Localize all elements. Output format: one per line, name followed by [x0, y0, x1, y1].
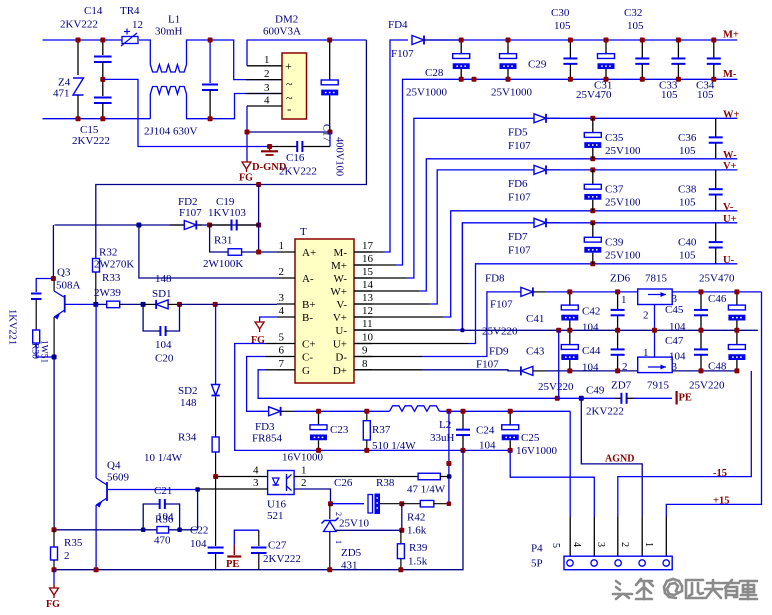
svg-text:D+: D+ — [333, 365, 347, 377]
capacitor C23 — [318, 411, 320, 425]
svg-text:C16: C16 — [286, 152, 305, 164]
wire pin6 to FD3 — [265, 356, 277, 358]
svg-text:1: 1 — [643, 347, 649, 359]
resistor R36 — [157, 527, 169, 534]
svg-text:FR854: FR854 — [252, 433, 282, 445]
svg-text:4: 4 — [264, 95, 270, 107]
wire Q4 emitter — [95, 505, 97, 570]
svg-text:521: 521 — [267, 510, 284, 522]
capacitor C32 — [641, 40, 643, 58]
svg-text:400V100: 400V100 — [334, 137, 345, 176]
svg-text:C24: C24 — [476, 425, 495, 437]
wire C16 up — [329, 132, 331, 147]
transistor Q4 — [106, 482, 108, 501]
junction — [640, 77, 645, 82]
capacitor C38 — [715, 170, 717, 189]
svg-text:2J104 630V: 2J104 630V — [144, 126, 198, 138]
junction C17 top — [327, 38, 332, 43]
wire pin5 to return row — [265, 343, 277, 345]
junction — [446, 409, 451, 414]
capacitor C27 — [234, 530, 258, 545]
pin 3 — [277, 303, 295, 305]
svg-text:R32: R32 — [99, 247, 117, 259]
svg-text:C43: C43 — [526, 346, 545, 358]
pin 4 — [247, 105, 282, 107]
svg-text:C28: C28 — [425, 67, 444, 79]
svg-text:2KV222: 2KV222 — [586, 406, 624, 418]
junction — [364, 409, 369, 414]
junction — [52, 527, 57, 532]
wire -15 out row — [672, 370, 737, 372]
diode FD2 — [170, 224, 184, 226]
svg-text:C22: C22 — [190, 525, 208, 537]
capacitor C49 — [615, 397, 621, 399]
svg-text:C26: C26 — [334, 477, 353, 489]
wire R31 row — [210, 225, 229, 252]
svg-text:2: 2 — [619, 542, 630, 547]
junction — [459, 77, 464, 82]
junction — [316, 448, 321, 453]
wire to T pin3 — [215, 303, 277, 305]
svg-text:FD5: FD5 — [508, 126, 528, 138]
junction — [699, 289, 704, 294]
capacitor C46 — [736, 292, 738, 305]
svg-text:12: 12 — [362, 305, 373, 317]
svg-text:C32: C32 — [624, 7, 642, 19]
junction — [245, 130, 250, 135]
svg-text:W+: W+ — [330, 286, 347, 298]
pin 16 — [354, 264, 372, 266]
svg-text:FG: FG — [46, 599, 60, 610]
svg-text:R33: R33 — [102, 272, 121, 284]
svg-text:4: 4 — [253, 465, 259, 477]
svg-text:1: 1 — [279, 240, 285, 252]
wire U- row — [354, 343, 469, 345]
resistor R32 — [93, 259, 100, 273]
svg-text:~: ~ — [286, 77, 293, 91]
svg-text:8: 8 — [362, 358, 368, 370]
junction Q3 collector — [51, 276, 56, 281]
transformer T — [295, 239, 354, 383]
svg-text:W-: W- — [723, 150, 737, 161]
wire 7915 gnd — [654, 330, 656, 357]
wire to C49 — [557, 397, 615, 399]
capacitor C24 — [462, 411, 464, 429]
junction — [640, 38, 645, 43]
wire R36 row — [54, 529, 198, 531]
svg-text:-: - — [287, 101, 291, 116]
svg-text:C14: C14 — [84, 5, 103, 17]
junction — [94, 567, 99, 572]
svg-text:C20: C20 — [155, 353, 174, 365]
wire +in row — [545, 291, 638, 293]
junction — [364, 448, 369, 453]
junction — [136, 223, 141, 228]
pin 4 — [277, 316, 295, 318]
svg-text:F107: F107 — [476, 359, 499, 371]
junction — [459, 38, 464, 43]
junction — [208, 116, 213, 121]
svg-text:R37: R37 — [372, 424, 391, 436]
svg-text:25V100: 25V100 — [605, 196, 641, 208]
svg-text:C44: C44 — [582, 345, 601, 357]
wire L1 upper to DM2 pin2 — [187, 40, 283, 80]
capacitor C45 — [700, 292, 702, 310]
pin 6 — [277, 356, 295, 358]
junction — [447, 474, 452, 479]
ground FG — [242, 162, 251, 169]
svg-text:471: 471 — [53, 88, 70, 100]
svg-text:104: 104 — [479, 440, 496, 452]
junction SD1 right — [177, 302, 182, 307]
svg-text:F107: F107 — [508, 244, 531, 256]
junction — [328, 501, 333, 506]
svg-text:-15: -15 — [713, 468, 727, 479]
junction — [568, 77, 573, 82]
svg-text:M-: M- — [334, 247, 348, 259]
svg-text:5: 5 — [279, 332, 285, 344]
svg-text:1.6k: 1.6k — [407, 525, 427, 537]
wire +15reg to P4 — [666, 292, 761, 517]
svg-text:25V220: 25V220 — [689, 380, 725, 392]
connector P4 5P — [564, 556, 672, 570]
svg-text:C29: C29 — [528, 59, 547, 71]
junction — [461, 448, 466, 453]
ground FG pin4 — [260, 317, 277, 322]
svg-text:105: 105 — [679, 196, 696, 208]
junction — [460, 328, 464, 332]
svg-text:5609: 5609 — [107, 472, 130, 484]
junction — [256, 250, 261, 255]
wire collector up — [52, 225, 54, 279]
svg-text:104: 104 — [669, 351, 686, 363]
wire L1 lower to DM2 pin3 — [187, 94, 283, 119]
junction — [590, 156, 595, 161]
wire U+ row — [354, 329, 455, 331]
svg-text:SD1: SD1 — [152, 288, 172, 300]
regulator ZD6 7815 — [638, 289, 673, 305]
capacitor C42 — [617, 292, 619, 310]
pin 1 — [277, 251, 295, 253]
ground FG bottom — [53, 570, 55, 584]
junction SD1 left — [141, 302, 146, 307]
svg-text:C35: C35 — [605, 132, 624, 144]
svg-text:1KV221: 1KV221 — [7, 309, 18, 345]
diode FD4 — [412, 36, 424, 45]
svg-text:F107: F107 — [508, 140, 531, 152]
svg-text:TR4: TR4 — [120, 5, 140, 17]
junction — [604, 77, 609, 82]
pin 1 — [247, 65, 282, 67]
svg-text:C-: C- — [302, 352, 313, 364]
wire W- row — [354, 290, 419, 292]
svg-text:508A: 508A — [56, 280, 81, 292]
svg-text:C+: C+ — [302, 339, 316, 351]
capacitor C16 — [270, 146, 298, 148]
svg-text:16V1000: 16V1000 — [516, 445, 557, 457]
svg-text:C23: C23 — [330, 424, 349, 436]
capacitor C15 — [102, 79, 104, 96]
svg-text:D-: D- — [335, 352, 347, 364]
junction — [699, 368, 704, 373]
wire minus rail — [247, 131, 330, 133]
capacitor C47 — [700, 330, 702, 349]
pin 5 — [277, 343, 295, 345]
svg-text:U+: U+ — [333, 339, 347, 351]
junction — [567, 289, 572, 294]
zener ZD5 431 — [329, 504, 331, 519]
junction — [711, 77, 716, 82]
diode FD3 — [269, 407, 281, 416]
junction — [508, 409, 513, 414]
svg-text:ZD7: ZD7 — [611, 380, 632, 392]
junction — [652, 328, 657, 333]
svg-text:13: 13 — [362, 292, 374, 304]
inductor L2 — [390, 406, 440, 412]
svg-text:C36: C36 — [678, 132, 697, 144]
svg-text:AGND: AGND — [605, 454, 634, 465]
svg-text:C45: C45 — [665, 304, 684, 316]
capacitor C19 — [210, 224, 232, 226]
svg-text:7815: 7815 — [645, 273, 668, 285]
svg-text:FG: FG — [239, 173, 253, 184]
svg-text:25V100: 25V100 — [605, 145, 641, 157]
wire C26 row — [331, 503, 365, 505]
capacitor C39 — [592, 223, 594, 238]
svg-text:104: 104 — [582, 362, 599, 374]
capacitor C22 — [215, 477, 217, 547]
wire V+ row — [354, 303, 430, 305]
svg-text:C37: C37 — [605, 183, 624, 195]
svg-text:2: 2 — [264, 68, 270, 80]
junction — [604, 38, 609, 43]
junction — [590, 208, 595, 213]
junction — [556, 328, 561, 333]
inductor L1 common-mode choke — [150, 65, 186, 73]
wire AGND mid rail — [462, 329, 757, 331]
svg-text:C42: C42 — [582, 306, 600, 318]
svg-text:V+: V+ — [333, 312, 347, 324]
junction — [508, 448, 513, 453]
svg-text:FG: FG — [251, 335, 265, 346]
wire +15 out row — [672, 291, 761, 293]
svg-text:2W39: 2W39 — [94, 287, 121, 299]
junction — [208, 38, 213, 43]
junction — [177, 528, 182, 533]
svg-text:R34: R34 — [178, 432, 197, 444]
wire pin17 to FD4 — [354, 251, 383, 253]
svg-text:C46: C46 — [708, 293, 727, 305]
svg-text:2KV222: 2KV222 — [60, 19, 98, 31]
junction C17 bottom — [328, 130, 333, 135]
svg-text:1KV103: 1KV103 — [208, 207, 246, 219]
junction — [676, 77, 681, 82]
junction SD2 top — [213, 302, 218, 307]
junction — [399, 528, 404, 533]
wire AGND to C49 node — [558, 330, 560, 398]
junction — [141, 528, 146, 533]
svg-text:1.5k: 1.5k — [408, 556, 428, 568]
capacitor C26 polarized — [368, 495, 373, 514]
pin 7 — [277, 369, 295, 371]
svg-text:3: 3 — [595, 542, 606, 547]
svg-text:105: 105 — [661, 89, 678, 101]
svg-text:1: 1 — [301, 465, 307, 477]
pin 3 — [198, 488, 268, 490]
pin 3 — [246, 93, 282, 95]
capacitor C28 — [460, 40, 462, 54]
svg-text:R38: R38 — [376, 477, 395, 489]
capacitor C29 — [507, 40, 509, 54]
svg-text:2W270K: 2W270K — [94, 258, 134, 270]
svg-text:W+: W+ — [723, 109, 740, 120]
svg-text:2KV222: 2KV222 — [263, 553, 301, 565]
pin 13 — [354, 303, 372, 305]
svg-text:3: 3 — [279, 292, 285, 304]
svg-text:A-: A- — [302, 273, 314, 285]
wire L2 out row — [439, 410, 570, 412]
resistor R31 — [228, 249, 242, 256]
pin 11 — [354, 329, 372, 331]
resistor R38 — [418, 473, 440, 480]
wire DM2+ rail — [247, 40, 366, 66]
svg-text:FD3: FD3 — [255, 421, 275, 433]
wire HV+ rail — [96, 40, 367, 259]
wire -15 to P4 — [618, 371, 752, 517]
junction — [615, 328, 620, 333]
junction — [256, 223, 261, 228]
capacitor C34 — [713, 40, 715, 58]
svg-text:1: 1 — [334, 540, 343, 544]
svg-text:U+: U+ — [723, 214, 737, 225]
svg-text:14: 14 — [362, 279, 374, 291]
capacitor C25 — [509, 411, 511, 425]
svg-text:2KV222: 2KV222 — [72, 135, 110, 147]
svg-text:C39: C39 — [605, 236, 624, 248]
svg-text:A+: A+ — [302, 247, 316, 259]
capacitor CX2 2J104 — [209, 40, 211, 83]
wire AC bottom rail left — [43, 118, 151, 120]
svg-text:2: 2 — [301, 477, 307, 489]
pin 2 — [246, 79, 282, 81]
svg-text:30mH: 30mH — [155, 26, 183, 38]
svg-text:ZD5: ZD5 — [341, 547, 362, 559]
svg-text:2KV222: 2KV222 — [279, 166, 317, 178]
capacitor C40 — [715, 223, 717, 242]
pin 1 — [294, 476, 418, 478]
wire C49 to PE — [633, 397, 672, 399]
svg-text:2: 2 — [334, 512, 343, 516]
capacitor C21 loop — [143, 504, 159, 530]
svg-text:FD7: FD7 — [508, 231, 528, 243]
svg-text:16: 16 — [362, 253, 374, 265]
svg-text:FD6: FD6 — [508, 178, 528, 190]
svg-text:C25: C25 — [521, 432, 540, 444]
transistor Q3 — [64, 295, 66, 313]
wire AC top rail left — [43, 39, 123, 41]
svg-text:12: 12 — [132, 19, 143, 31]
svg-text:U-: U- — [335, 325, 347, 337]
svg-text:V-: V- — [336, 299, 347, 311]
pin 2 — [277, 277, 295, 279]
pin 8 — [354, 369, 372, 371]
power PE left — [233, 545, 235, 555]
svg-text:+: + — [285, 59, 292, 73]
svg-text:10 1/4W: 10 1/4W — [144, 452, 183, 464]
svg-text:R39: R39 — [409, 542, 428, 554]
junction — [461, 409, 466, 414]
junction D-GND — [267, 144, 272, 149]
capacitor C14 — [102, 40, 104, 55]
wire L1 lower left — [149, 94, 151, 119]
svg-text:C30: C30 — [551, 7, 570, 19]
junction — [568, 38, 573, 43]
svg-text:2: 2 — [279, 266, 285, 278]
capacitor C44 — [617, 330, 619, 349]
junction — [52, 567, 57, 572]
svg-text:SD2: SD2 — [178, 385, 198, 397]
wire base to R36 row — [197, 490, 199, 530]
capacitor C31 — [605, 40, 607, 54]
wire 7815 gnd — [654, 305, 656, 331]
svg-text:2: 2 — [643, 310, 649, 322]
svg-text:2W100K: 2W100K — [203, 258, 243, 270]
svg-text:P4: P4 — [531, 543, 543, 555]
junction — [398, 567, 403, 572]
svg-text:C38: C38 — [678, 183, 697, 195]
diode FD8 — [521, 287, 533, 296]
svg-text:G: G — [302, 365, 310, 377]
svg-text:W-: W- — [334, 273, 348, 285]
svg-text:M+: M+ — [723, 30, 739, 41]
wire AGND to P4 — [581, 398, 642, 517]
svg-text:C47: C47 — [665, 335, 684, 347]
svg-text:470: 470 — [154, 535, 171, 547]
svg-text:C27: C27 — [268, 540, 287, 552]
svg-text:C48: C48 — [708, 361, 727, 373]
svg-text:R42: R42 — [407, 512, 425, 524]
capacitor C33 — [677, 40, 679, 58]
junction — [316, 409, 321, 414]
power PE — [675, 391, 677, 405]
optocoupler U16 — [268, 471, 295, 495]
svg-text:V-: V- — [723, 202, 734, 213]
svg-text:15: 15 — [362, 266, 374, 278]
svg-text:1: 1 — [643, 542, 654, 547]
svg-text:105: 105 — [554, 20, 571, 32]
junction — [615, 289, 620, 294]
wire +15 to P4 — [510, 450, 594, 517]
wire FD2 row — [55, 224, 259, 226]
pin 10 — [354, 343, 372, 345]
svg-text:FD9: FD9 — [489, 346, 509, 358]
regulator ZD7 7915 — [638, 357, 673, 373]
wire TL431 ref — [336, 504, 402, 531]
svg-text:B+: B+ — [302, 299, 316, 311]
wire base row — [96, 303, 107, 305]
resistor R35 — [53, 530, 55, 547]
junction — [447, 501, 452, 506]
junction — [579, 396, 584, 401]
wire C16 row — [103, 79, 270, 146]
junction — [100, 38, 105, 43]
wire L2 row — [294, 410, 390, 412]
svg-text:M-: M- — [723, 69, 737, 80]
junction — [734, 289, 739, 294]
svg-text:C41: C41 — [526, 313, 544, 325]
junction — [590, 220, 595, 225]
junction — [213, 474, 218, 479]
